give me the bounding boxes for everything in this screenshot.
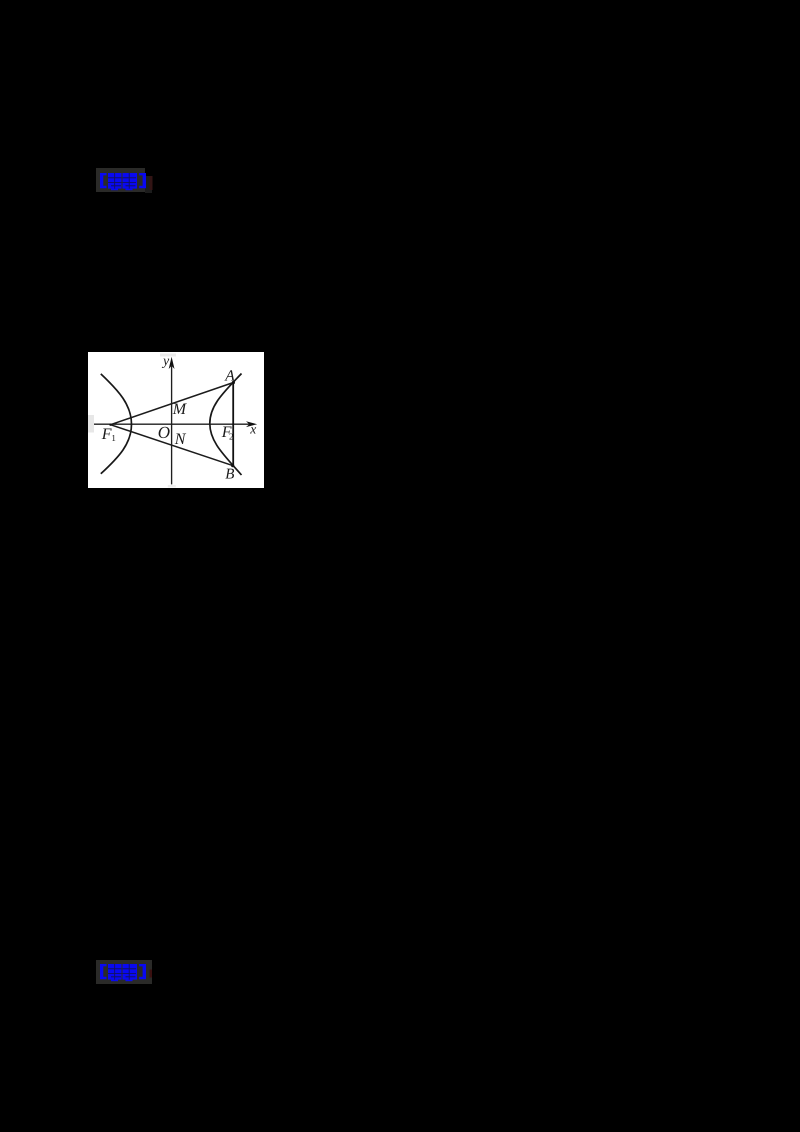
line F1-A	[111, 383, 234, 425]
svg-text:N: N	[174, 431, 187, 448]
point B	[231, 464, 234, 467]
y-axis	[171, 366, 173, 484]
svg-text:A: A	[224, 367, 235, 384]
point F1	[109, 424, 111, 426]
right hyperbola branch	[210, 374, 242, 476]
x-axis arrowhead	[246, 421, 257, 427]
chord AB	[232, 383, 234, 466]
left hyperbola branch	[101, 374, 132, 474]
x-axis	[94, 423, 254, 425]
line F1-B	[111, 425, 233, 466]
svg-text:2: 2	[229, 431, 234, 441]
gray artifact patch top	[160, 354, 176, 357]
svg-text:F: F	[101, 426, 112, 443]
svg-text:x: x	[249, 421, 256, 436]
svg-text:1: 1	[111, 433, 116, 443]
svg-text:y: y	[161, 354, 170, 369]
blue tag label 2 (【..】 highlight)	[96, 960, 152, 984]
faint dark red mark after bracket	[150, 176, 153, 190]
gray artifact patch left	[88, 415, 94, 433]
svg-text:B: B	[225, 467, 234, 483]
gray artifact patch bottom	[168, 485, 176, 488]
blue tag label 1 (【..】 highlight)	[96, 168, 145, 192]
svg-text:M: M	[172, 401, 188, 418]
figure: hyperbola diagram on white	[88, 352, 264, 488]
svg-text:O: O	[158, 423, 170, 442]
faint dark red mark after bracket	[150, 970, 153, 978]
y-axis arrowhead	[169, 357, 175, 369]
point A	[232, 381, 235, 384]
